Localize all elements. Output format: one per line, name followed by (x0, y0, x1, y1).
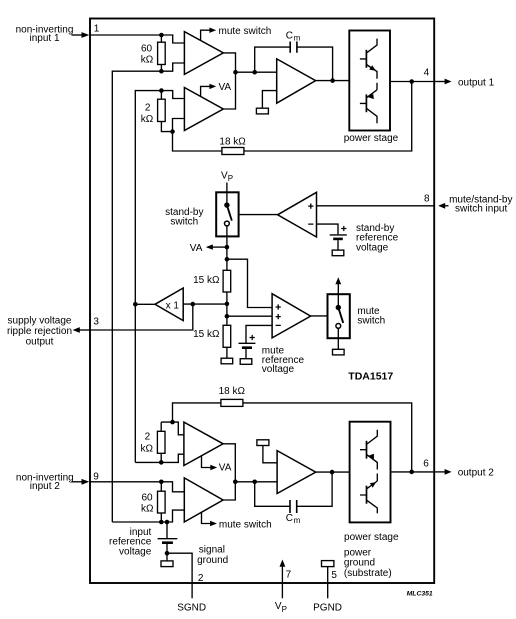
op-amp A5 (277, 59, 316, 103)
wire SGND (167, 553, 192, 598)
wire pin 9 (90, 481, 161, 483)
svg-text:3: 3 (93, 317, 99, 328)
label mute reference voltage (262, 346, 305, 375)
node SGND branch (165, 551, 170, 556)
dashed emitter link ch2 (376, 474, 378, 482)
svg-text:ground: ground (197, 555, 228, 566)
svg-text:supply voltage: supply voltage (8, 316, 72, 327)
pin 9 arrow (72, 479, 90, 485)
node first-stage output ch2 (233, 480, 238, 485)
svg-text:C: C (286, 30, 293, 41)
svg-text:power stage: power stage (344, 532, 399, 543)
svg-text:18 kΩ: 18 kΩ (219, 137, 246, 148)
op-amp A3 (184, 422, 223, 465)
node VA (225, 245, 230, 250)
svg-text:15 kΩ: 15 kΩ (193, 329, 220, 340)
signal ground pad 15k (221, 358, 233, 364)
svg-text:MLC351: MLC351 (407, 591, 433, 598)
label mute switch (357, 306, 385, 326)
resistor 18 kOhm ch1 (173, 132, 247, 155)
resistor 2 kOhm ch1 (141, 91, 173, 132)
node Cm tap (252, 70, 257, 75)
node first-stage output (233, 70, 238, 75)
op-amp A4 (184, 478, 223, 522)
wire between 15k resistors (226, 292, 228, 325)
node 2k top (159, 88, 164, 93)
svg-text:SGND: SGND (177, 603, 206, 614)
resistor 15 kOhm upper (193, 270, 231, 292)
IC outline (90, 19, 434, 584)
op-amp A1 (184, 32, 223, 75)
svg-text:output 1: output 1 (458, 77, 495, 88)
node A5 output feedback (330, 78, 335, 83)
stand-by switch box (216, 192, 238, 236)
svg-text:output: output (26, 336, 54, 347)
transistor Q1 (360, 39, 377, 79)
pin 1 arrow (72, 32, 90, 38)
node 60k top ch2 (159, 480, 164, 485)
svg-text:VA: VA (219, 82, 232, 93)
svg-text:mute switch: mute switch (219, 26, 272, 37)
label supply voltage ripple rejection output (7, 316, 72, 348)
svg-text:m: m (294, 516, 301, 525)
pin 4 (424, 68, 495, 89)
wire VA node (226, 236, 228, 270)
wire to A5 input (236, 71, 277, 73)
SECTION: bottom pins (275, 547, 433, 613)
pin 3 (73, 317, 100, 333)
VA arrow (190, 243, 227, 254)
label input reference voltage (109, 527, 152, 558)
node x1 junction (225, 302, 230, 307)
resistor 60 kOhm ch1 (141, 35, 165, 71)
wire A8 output (316, 471, 350, 473)
wire 60k bottom to input-reference rail (112, 71, 161, 522)
wire x1 input (183, 303, 227, 305)
wire pin 3 (90, 304, 193, 330)
dashed emitter link ch1 (376, 83, 378, 90)
svg-text:7: 7 (286, 570, 292, 581)
transistor Q3 (360, 430, 377, 470)
node mute plus2 tap (225, 314, 230, 319)
svg-text:TDA1517: TDA1517 (348, 370, 393, 382)
svg-text:2: 2 (145, 431, 151, 442)
wire A2 upper input (161, 91, 184, 99)
svg-text:switch: switch (357, 315, 385, 326)
wire mute opamp minus (246, 325, 272, 343)
svg-text:kΩ: kΩ (141, 114, 154, 125)
wire 2k bottom to x1 rail (135, 461, 161, 463)
wire VP to stand-by switch (226, 183, 228, 193)
wire to A8 input (235, 481, 277, 483)
svg-text:kΩ: kΩ (141, 55, 154, 66)
resistor 2 kOhm ch2 (141, 422, 173, 462)
wire mute opamp plus1 (227, 259, 272, 307)
mute switch contacts (336, 294, 344, 338)
pin 5 PGND (322, 561, 338, 599)
resistor 60 kOhm ch2 (141, 482, 165, 522)
node battery tap (165, 520, 170, 525)
svg-text:9: 9 (93, 471, 99, 482)
mute tap arrow A4 (202, 512, 272, 530)
wire A3 lower input (161, 454, 184, 462)
svg-text:2: 2 (198, 573, 204, 584)
svg-text:output 2: output 2 (458, 468, 495, 479)
wire output 2 (391, 471, 435, 473)
svg-text:mute switch: mute switch (219, 519, 272, 530)
wire A8 inverting stub (263, 446, 277, 463)
svg-text:voltage: voltage (262, 364, 295, 375)
svg-text:4: 4 (424, 68, 430, 79)
label non-inverting input 2 (16, 472, 74, 492)
wire A3 A4 outputs joined (223, 444, 235, 500)
svg-text:m: m (294, 33, 301, 42)
wire A5 inverting stub (262, 91, 276, 109)
svg-text:P: P (228, 174, 233, 183)
wire A3 upper input (173, 422, 184, 435)
svg-text:PGND: PGND (313, 603, 342, 614)
svg-text:6: 6 (423, 459, 429, 470)
svg-text:switch input: switch input (455, 203, 507, 214)
pin 6 (423, 459, 494, 479)
pin 7 VP (280, 560, 292, 599)
wire stand-by switch output (239, 214, 278, 216)
svg-text:switch: switch (170, 217, 198, 228)
label signal ground (197, 545, 228, 566)
wire A7 output (310, 315, 327, 317)
wire pin 8 (317, 205, 434, 207)
svg-text:VA: VA (219, 462, 232, 473)
svg-text:P: P (282, 605, 287, 614)
op-amp A6 stand-by comparator (278, 192, 317, 237)
node x1 output rail (133, 302, 138, 307)
svg-text:voltage: voltage (119, 546, 152, 557)
svg-text:x 1: x 1 (166, 300, 180, 311)
resistor 15 kOhm lower (193, 325, 231, 358)
wire A1 upper input (161, 35, 184, 43)
op-amp A8 (277, 451, 316, 494)
node 2k top ch2 (170, 420, 175, 425)
signal ground pad A8 (257, 440, 269, 446)
wire bottom reference rail (112, 521, 167, 523)
signal ground pad A5 (256, 108, 268, 114)
op-amp A2 (184, 88, 223, 131)
mute switch tap arrow A1 (201, 26, 272, 40)
svg-text:15 kΩ: 15 kΩ (193, 275, 220, 286)
svg-text:C: C (286, 513, 293, 524)
node 60k bottom (159, 69, 164, 74)
svg-text:1: 1 (94, 24, 100, 35)
transistor Q4 (360, 481, 377, 513)
svg-text:kΩ: kΩ (141, 503, 154, 514)
wire feedback ch1 (244, 82, 412, 152)
node mute plus1 tap (225, 257, 230, 262)
power stage box ch2 (350, 422, 391, 523)
node pin3 branch (191, 302, 196, 307)
battery mute reference (239, 335, 256, 364)
svg-text:input 1: input 1 (29, 33, 59, 44)
resistor 18 kOhm ch2 (173, 386, 412, 472)
SECTION: middle (7, 171, 512, 383)
wire A2 lower input (173, 119, 185, 132)
wire x1 output (135, 303, 155, 305)
wire output 1 (390, 81, 434, 83)
SECTION: channel 2 (16, 386, 494, 613)
svg-text:kΩ: kΩ (141, 443, 154, 454)
VA tap arrow A3 (202, 456, 232, 473)
svg-text:18 kΩ: 18 kΩ (219, 386, 246, 397)
arrow mute switch to VA (335, 277, 341, 294)
node 2k bottom ch2 (159, 460, 164, 465)
wire 2k top to x1 rail (135, 91, 161, 463)
svg-text:60: 60 (141, 493, 153, 504)
svg-text:input 2: input 2 (30, 481, 60, 492)
mute switch box (328, 294, 350, 338)
wire A6 inverting input (317, 224, 338, 234)
svg-text:VA: VA (190, 243, 203, 254)
pin 8 (424, 194, 512, 215)
svg-text:5: 5 (331, 570, 337, 581)
node 60k bottom ch2 (159, 520, 164, 525)
battery input reference (158, 522, 178, 561)
svg-text:2: 2 (145, 102, 151, 113)
label power ground substrate (344, 547, 392, 578)
capacitor Cm ch1 (255, 30, 333, 80)
signal ground pad mute switch (333, 349, 345, 355)
VA tap arrow A2 (201, 82, 232, 96)
capacitor Cm ch2 (255, 472, 332, 525)
battery stand-by reference (330, 226, 347, 256)
svg-text:voltage: voltage (356, 242, 389, 253)
svg-text:8: 8 (424, 194, 430, 205)
svg-text:60: 60 (141, 43, 153, 54)
node output 2 feedback (409, 470, 414, 475)
wire mute switch to pad (337, 338, 339, 349)
node 60k top (159, 33, 164, 38)
buffer x1 (155, 288, 183, 321)
wire mute opamp plus2 (227, 315, 272, 317)
label stand-by switch (165, 207, 203, 227)
wire A4 lower input (167, 510, 184, 522)
wire A5 output (316, 80, 350, 82)
node 2k bottom / feedback (170, 129, 175, 134)
wire A4 upper input (161, 482, 184, 492)
svg-text:power stage: power stage (344, 133, 399, 144)
SECTION: channel 1 (16, 24, 495, 523)
wire A1 A2 outputs joined (223, 53, 235, 109)
transistor Q2 (360, 90, 377, 124)
wire pin 1 (90, 34, 161, 36)
label VP bottom (275, 601, 287, 614)
power stage box ch1 (349, 31, 390, 131)
label non-inverting input 1 (16, 24, 74, 44)
node Cm tap ch2 (252, 480, 257, 485)
wire A1 lower input (161, 63, 184, 71)
label stand-by reference voltage (356, 223, 399, 253)
signal ground pad input reference (161, 561, 173, 567)
svg-text:(substrate): (substrate) (344, 568, 392, 579)
stand-by switch contacts (224, 192, 232, 236)
node A8 output feedback (330, 470, 335, 475)
label VP top (221, 171, 233, 183)
node output 1 feedback (409, 79, 414, 84)
op-amp A7 mute comparator (272, 294, 311, 338)
